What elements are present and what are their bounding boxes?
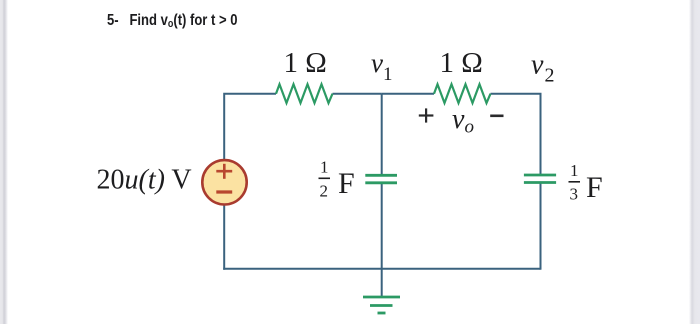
svg-text:F: F <box>586 171 603 204</box>
wire: source bottom lead to bottom rail <box>223 204 225 270</box>
svg-text:20u(t) V: 20u(t) V <box>97 165 192 196</box>
wire: bottom rail <box>223 268 540 270</box>
wire: v1 down to C1 top plate <box>381 94 383 176</box>
capacitor C1 (1/2 F) plates <box>365 175 397 183</box>
wire: R2 to node v2 corner, down to C2 <box>491 94 541 175</box>
svg-text:1 Ω: 1 Ω <box>284 47 327 79</box>
svg-text:1: 1 <box>320 158 329 177</box>
voltage source minus terminal <box>216 190 232 193</box>
voltage source VS1 circle <box>202 160 246 204</box>
svg-text:vo: vo <box>452 104 474 138</box>
capacitor C1 value label: 1/2 F <box>319 158 355 201</box>
right page-edge strip <box>689 0 700 324</box>
svg-text:1: 1 <box>570 161 579 180</box>
title: problem statement <box>107 12 237 30</box>
wire: node v1 to R2 <box>382 93 434 95</box>
wire: C1 bottom plate down to bottom rail <box>381 183 383 269</box>
wire: between R1 and node v1 <box>333 93 382 95</box>
left page-edge strip <box>0 0 8 324</box>
capacitor C2 (1/3 F) plates <box>524 175 556 183</box>
wire: left branch top corner, source top lead <box>224 94 276 161</box>
svg-text:v2: v2 <box>531 50 554 87</box>
wire: ground stem below bottom rail <box>381 269 383 297</box>
svg-text:1 Ω: 1 Ω <box>440 47 483 79</box>
resistor R2 (1 ohm) zigzag <box>434 84 491 103</box>
capacitor C2 value label: 1/3 F <box>569 161 603 204</box>
svg-text:2: 2 <box>320 181 329 200</box>
resistor R1 (1 ohm) zigzag <box>276 84 333 103</box>
vo polarity plus sign <box>419 108 434 122</box>
svg-text:3: 3 <box>570 185 579 204</box>
vo polarity minus sign <box>490 115 503 118</box>
svg-text:F: F <box>338 167 355 200</box>
voltage source plus terminal <box>216 164 232 179</box>
ground symbol <box>363 297 400 313</box>
wire: C2 bottom plate down to bottom rail <box>540 183 542 270</box>
svg-text:v1: v1 <box>371 48 392 85</box>
